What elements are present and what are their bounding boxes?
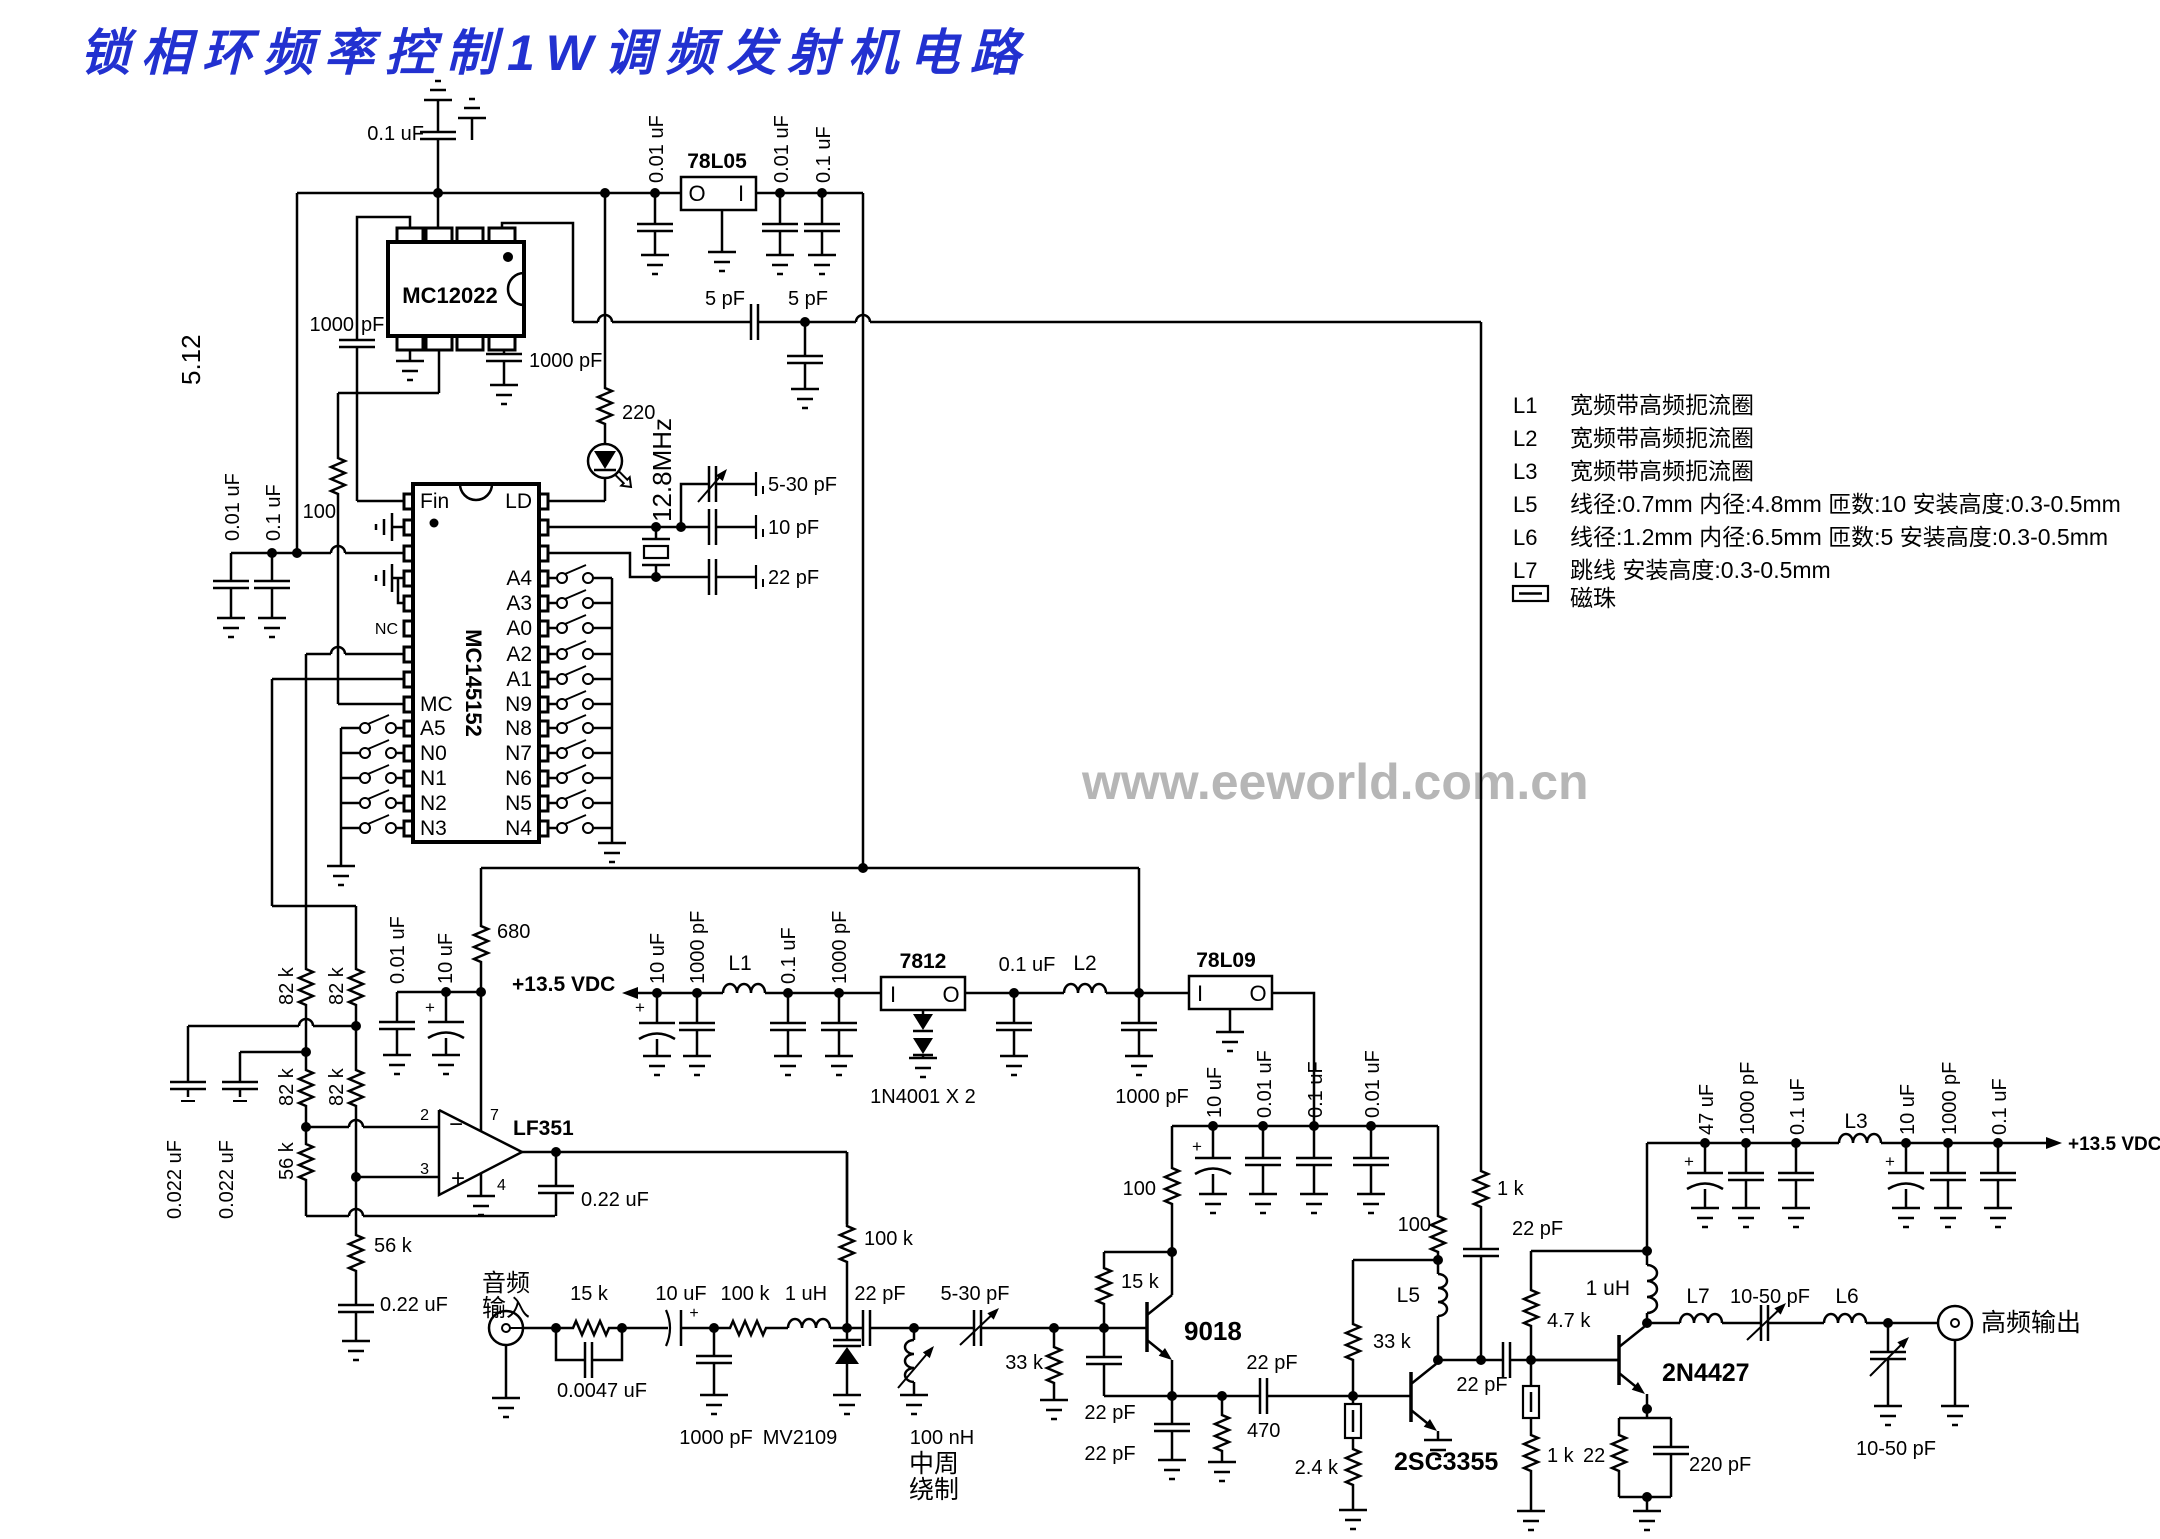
wire LED to LD pin bbox=[548, 477, 605, 501]
svg-text:0.01 uF: 0.01 uF bbox=[222, 473, 244, 541]
resistor 100 k (varactor bias) bbox=[840, 1152, 914, 1328]
svg-text:+: + bbox=[1192, 1137, 1202, 1156]
capacitor 22 pF (base-emitter) bbox=[1084, 1328, 1135, 1424]
svg-text:2SC3355: 2SC3355 bbox=[1394, 1448, 1498, 1476]
capacitor 0.1 uF (9V) bbox=[1296, 1061, 1332, 1194]
svg-text:7812: 7812 bbox=[900, 950, 947, 973]
ground bbox=[1158, 1460, 1186, 1479]
svg-text:7: 7 bbox=[490, 1107, 499, 1124]
varactor MV2109 bbox=[763, 1328, 861, 1449]
capacitor 1000 pF (PA) bbox=[1728, 1062, 1764, 1208]
capacitor 1000 pF (PA out) bbox=[1930, 1062, 1966, 1208]
resistor 15 k (9018) bbox=[1097, 1252, 1172, 1328]
resistor 100 k (audio) bbox=[714, 1283, 788, 1335]
svg-text:N4: N4 bbox=[505, 817, 532, 840]
pin label N9 bbox=[505, 693, 532, 716]
ground bbox=[1300, 1194, 1328, 1213]
svg-text:pF: pF bbox=[361, 314, 384, 336]
svg-text:音频: 音频 bbox=[482, 1270, 530, 1297]
op-amp U3 LF351 bbox=[420, 1107, 574, 1195]
ground (below 5 pF) bbox=[791, 389, 819, 408]
resistor 82 k (D) bbox=[326, 1026, 363, 1182]
svg-text:−: − bbox=[449, 1111, 463, 1138]
svg-text:1000: 1000 bbox=[310, 314, 355, 336]
ground bbox=[342, 1341, 370, 1360]
svg-text:O: O bbox=[688, 181, 705, 206]
ground bbox=[1934, 1208, 1962, 1227]
ground bbox=[1691, 1208, 1719, 1227]
resistor 100 (PLL) bbox=[303, 393, 404, 704]
svg-text:0.01 uF: 0.01 uF bbox=[646, 115, 668, 183]
svg-text:12.8MHz: 12.8MHz bbox=[647, 418, 677, 522]
switch A1 bbox=[548, 666, 612, 684]
wire row654 drop bbox=[305, 654, 308, 967]
transistor Q1 9018 bbox=[1147, 1252, 1242, 1396]
pin label Fin bbox=[420, 490, 449, 513]
svg-text:0.1 uF: 0.1 uF bbox=[999, 954, 1056, 976]
ground (2N4427 emitter) bbox=[1633, 1497, 1661, 1530]
wire left switch bus bbox=[340, 728, 343, 866]
svg-text:10 uF: 10 uF bbox=[1204, 1067, 1226, 1118]
watermark bbox=[1081, 754, 1589, 810]
svg-text:78L09: 78L09 bbox=[1196, 949, 1256, 972]
wire base bias bbox=[1531, 1246, 1652, 1256]
svg-text:5-30 pF: 5-30 pF bbox=[768, 474, 837, 496]
svg-text:5 pF: 5 pF bbox=[705, 288, 745, 310]
svg-text:0.1 uF: 0.1 uF bbox=[1787, 1078, 1809, 1135]
regulator 78L09 bbox=[1189, 949, 1272, 1009]
svg-text:线径:1.2mm 内径:6.5mm 匝数:5 安装高度:0: 线径:1.2mm 内径:6.5mm 匝数:5 安装高度:0.3-0.5mm bbox=[1570, 524, 2108, 550]
wire 78L09 out bbox=[1272, 993, 1314, 1126]
svg-text:470: 470 bbox=[1247, 1420, 1280, 1442]
resistor 470 bbox=[1215, 1396, 1280, 1462]
switch N2 bbox=[341, 790, 404, 808]
svg-text:I: I bbox=[890, 982, 896, 1007]
svg-text:L7: L7 bbox=[1513, 558, 1537, 583]
svg-text:56 k: 56 k bbox=[374, 1235, 413, 1257]
wire 9V rail bbox=[1172, 1121, 1438, 1131]
legend L1 bbox=[1513, 392, 1754, 418]
ground bbox=[808, 255, 836, 274]
svg-text:100 k: 100 k bbox=[864, 1228, 914, 1250]
resistor 100 (rail right) bbox=[1398, 1126, 1445, 1265]
ground (2SC3355 emitter) bbox=[1424, 1440, 1452, 1459]
svg-text:N0: N0 bbox=[420, 742, 447, 765]
switch N6 bbox=[548, 765, 612, 783]
svg-text:680: 680 bbox=[497, 921, 530, 943]
capacitor 10 uF (op-amp supply) bbox=[425, 933, 464, 1055]
svg-text:1000 pF: 1000 pF bbox=[679, 1427, 752, 1449]
ground bbox=[1208, 1462, 1236, 1481]
pin label N6 bbox=[505, 767, 532, 790]
ground bbox=[1892, 1208, 1920, 1227]
wire OSC1 row 527 bbox=[548, 522, 686, 532]
ground bbox=[1874, 1406, 1902, 1425]
crystal 12.8MHz bbox=[642, 418, 677, 582]
legend L7 bbox=[1513, 557, 1831, 583]
ferrite bead (2N4427 base) bbox=[1523, 1360, 1539, 1418]
ground (sideways, rows 578/603) bbox=[376, 564, 404, 603]
svg-text:0.22 uF: 0.22 uF bbox=[581, 1189, 649, 1211]
capacitor 0.01 uF (left of 78L05) bbox=[637, 115, 673, 255]
capacitor 0.22 uF (lower) bbox=[338, 1294, 448, 1341]
svg-text:Fin: Fin bbox=[420, 490, 449, 513]
figure number 5.12 bbox=[176, 334, 206, 385]
switch A3 bbox=[548, 590, 612, 608]
pin label N7 bbox=[505, 742, 532, 765]
label +13.5 VDC (right) bbox=[2046, 1134, 2160, 1155]
IC U1 MC145152 bbox=[404, 484, 548, 842]
svg-text:1000 pF: 1000 pF bbox=[529, 350, 602, 372]
svg-text:33 k: 33 k bbox=[1005, 1352, 1044, 1374]
wire bbox=[1881, 1138, 2046, 1148]
svg-text:L2: L2 bbox=[1073, 952, 1096, 975]
svg-text:47 uF: 47 uF bbox=[1696, 1084, 1718, 1135]
svg-text:+: + bbox=[689, 1305, 698, 1322]
ground (RF connector) bbox=[1941, 1340, 1969, 1425]
legend L5 bbox=[1513, 491, 2121, 517]
pin label N5 bbox=[505, 792, 532, 815]
ferrite bead (2SC3355 base) bbox=[1345, 1396, 1361, 1438]
ground (below 1000 pF) bbox=[490, 385, 518, 404]
pin label A3 bbox=[506, 592, 532, 615]
svg-text:磁珠: 磁珠 bbox=[1570, 585, 1616, 611]
svg-text:I: I bbox=[738, 181, 744, 206]
svg-text:+: + bbox=[425, 998, 435, 1017]
ground bbox=[217, 618, 245, 637]
svg-text:宽频带高频扼流圈: 宽频带高频扼流圈 bbox=[1570, 425, 1754, 451]
svg-text:100: 100 bbox=[1398, 1214, 1431, 1236]
inductor 1 uH (audio) bbox=[785, 1283, 863, 1333]
svg-text:1 k: 1 k bbox=[1547, 1445, 1575, 1467]
capacitor 5 pF (series) bbox=[705, 288, 758, 340]
svg-text:2.4 k: 2.4 k bbox=[1295, 1457, 1339, 1479]
svg-text:2: 2 bbox=[420, 1107, 429, 1124]
wire node A bbox=[338, 347, 439, 501]
inductor L6 bbox=[1824, 1285, 1938, 1328]
svg-text:L6: L6 bbox=[1513, 525, 1537, 550]
ground (top of 0.1 uF) bbox=[424, 81, 452, 132]
svg-text:A0: A0 bbox=[506, 617, 532, 640]
resistor 82 k (B) bbox=[326, 906, 363, 1026]
svg-text:0.22 uF: 0.22 uF bbox=[380, 1294, 448, 1316]
capacitor 0.1 uF (PA) bbox=[1778, 1078, 1814, 1208]
svg-text:L5: L5 bbox=[1397, 1284, 1420, 1307]
switch N0 bbox=[341, 740, 404, 758]
svg-text:15 k: 15 k bbox=[1121, 1271, 1160, 1293]
pin label NC bbox=[375, 621, 398, 638]
svg-text:MC12022: MC12022 bbox=[402, 283, 497, 308]
switch N4 bbox=[548, 815, 612, 833]
svg-text:0.1 uF: 0.1 uF bbox=[778, 927, 800, 984]
capacitor 22 pF (interstage) bbox=[1222, 1352, 1358, 1414]
wire 33k top bbox=[1353, 1259, 1438, 1262]
ground bbox=[683, 1056, 711, 1075]
wire pin7 supply bbox=[480, 992, 483, 1131]
svg-text:宽频带高频扼流圈: 宽频带高频扼流圈 bbox=[1570, 458, 1754, 484]
capacitor 0.01 uF (Vdd) bbox=[213, 473, 249, 618]
pin label LD bbox=[505, 490, 532, 513]
svg-text:10 uF: 10 uF bbox=[1897, 1084, 1919, 1135]
ground (MC12022 pin 1 bottom) bbox=[396, 350, 424, 380]
svg-text:5.12: 5.12 bbox=[176, 334, 206, 385]
svg-text:220 pF: 220 pF bbox=[1689, 1454, 1751, 1476]
svg-text:33 k: 33 k bbox=[1373, 1331, 1412, 1353]
pin label N3 bbox=[420, 817, 447, 840]
svg-text:跳线 安装高度:0.3-0.5mm: 跳线 安装高度:0.3-0.5mm bbox=[1570, 557, 1831, 583]
pin label MC bbox=[420, 693, 453, 716]
svg-text:5-30 pF: 5-30 pF bbox=[941, 1283, 1010, 1305]
title text bbox=[80, 25, 1031, 81]
wire bbox=[611, 1323, 668, 1333]
ground (sideways, pin row 527) bbox=[376, 513, 404, 541]
svg-text:A5: A5 bbox=[420, 717, 446, 740]
svg-text:10-50 pF: 10-50 pF bbox=[1730, 1286, 1810, 1308]
svg-text:1N4001 X 2: 1N4001 X 2 bbox=[870, 1086, 976, 1108]
svg-text:10 uF: 10 uF bbox=[655, 1283, 706, 1305]
connector RF output bbox=[1938, 1306, 2081, 1340]
capacitor 5 pF (shunt) bbox=[787, 288, 828, 389]
svg-text:4: 4 bbox=[497, 1177, 506, 1194]
wire bbox=[765, 988, 881, 998]
svg-text:22 pF: 22 pF bbox=[854, 1283, 905, 1305]
resistor 33 k (9018 base) bbox=[1005, 1328, 1061, 1400]
wire 13.5V feed bbox=[622, 987, 723, 999]
svg-text:4.7 k: 4.7 k bbox=[1547, 1310, 1591, 1332]
svg-text:0.01 uF: 0.01 uF bbox=[1362, 1050, 1384, 1118]
ground bbox=[383, 1055, 411, 1074]
resistor 1 k (feedback) bbox=[1474, 322, 1525, 1249]
inductor L5 bbox=[1397, 1260, 1447, 1365]
svg-text:0.1 uF: 0.1 uF bbox=[367, 123, 424, 145]
ground bbox=[1125, 1056, 1153, 1075]
capacitor 47 uF bbox=[1684, 1084, 1723, 1208]
ground bbox=[258, 618, 286, 637]
wire row 654 bbox=[306, 647, 404, 654]
svg-text:1000 pF: 1000 pF bbox=[1939, 1062, 1961, 1135]
ground bbox=[432, 1055, 460, 1074]
ground bbox=[643, 1056, 671, 1075]
LED lock indicator bbox=[588, 444, 631, 487]
svg-text:0.01 uF: 0.01 uF bbox=[387, 916, 409, 984]
capacitor 5-30 pF (trimmer) bbox=[681, 466, 837, 527]
svg-text:0.01 uF: 0.01 uF bbox=[771, 115, 793, 183]
ground bbox=[1199, 1194, 1227, 1213]
wire Vcc bus bbox=[297, 188, 863, 198]
svg-text:1 uH: 1 uH bbox=[1586, 1277, 1630, 1300]
ground bbox=[641, 255, 669, 274]
svg-text:www.eeworld.com.cn: www.eeworld.com.cn bbox=[1081, 754, 1589, 810]
svg-text:1000 pF: 1000 pF bbox=[1115, 1086, 1188, 1108]
pin label N0 bbox=[420, 742, 447, 765]
resistor 100 (rail left) bbox=[1123, 1126, 1179, 1257]
svg-text:LF351: LF351 bbox=[513, 1117, 574, 1140]
svg-text:+: + bbox=[451, 1165, 465, 1192]
switch N3 bbox=[341, 815, 404, 833]
capacitor 0.01 uF (9V) bbox=[1245, 1050, 1281, 1194]
svg-text:L2: L2 bbox=[1513, 426, 1537, 451]
inductor 1 uH (collector) bbox=[1586, 1251, 1657, 1328]
pin label A0 bbox=[506, 617, 532, 640]
svg-text:0.1 uF: 0.1 uF bbox=[263, 484, 285, 541]
capacitor 0.1 uF (top) bbox=[367, 123, 456, 193]
svg-text:22 pF: 22 pF bbox=[1084, 1402, 1135, 1424]
resistor 56 k (A) bbox=[276, 1127, 313, 1216]
capacitor 0.1 uF (right) bbox=[804, 126, 840, 255]
svg-text:22: 22 bbox=[1583, 1445, 1605, 1467]
svg-text:+: + bbox=[635, 998, 645, 1017]
svg-text:线径:0.7mm 内径:4.8mm 匝数:10 安装高度:0: 线径:0.7mm 内径:4.8mm 匝数:10 安装高度:0.3-0.5mm bbox=[1570, 491, 2121, 517]
svg-text:N3: N3 bbox=[420, 817, 447, 840]
svg-text:+: + bbox=[1684, 1152, 1694, 1171]
svg-text:N2: N2 bbox=[420, 792, 447, 815]
ground (audio connector) bbox=[492, 1345, 520, 1417]
legend L2 bbox=[1513, 425, 1754, 451]
svg-text:3: 3 bbox=[420, 1161, 429, 1178]
svg-text:0.0047 uF: 0.0047 uF bbox=[557, 1380, 647, 1402]
capacitor 10 pF bbox=[681, 509, 819, 545]
resistor 22 (emitter) bbox=[1583, 1409, 1671, 1497]
wire noninverting input bbox=[356, 1176, 439, 1179]
capacitor 0.1 uF (Vdd) bbox=[254, 484, 290, 618]
svg-text:中周: 中周 bbox=[909, 1450, 959, 1478]
capacitor 0.0047 uF bbox=[556, 1328, 647, 1402]
transistor Q2 2SC3355 bbox=[1353, 1362, 1498, 1476]
ground bbox=[1782, 1208, 1810, 1227]
svg-text:22 pF: 22 pF bbox=[1512, 1218, 1563, 1240]
capacitor 0.22 uF (output) bbox=[538, 1152, 649, 1216]
svg-text:N6: N6 bbox=[505, 767, 532, 790]
capacitor 10-50 pF (series) bbox=[1730, 1286, 1824, 1341]
pin label N8 bbox=[505, 717, 532, 740]
switch N7 bbox=[548, 740, 612, 758]
svg-text:100: 100 bbox=[303, 501, 336, 523]
inductor L7 bbox=[1647, 1285, 1761, 1323]
wire MC12022 pin4 to VCO line bbox=[502, 223, 573, 322]
pin label A1 bbox=[506, 668, 532, 691]
inductor L2 bbox=[1064, 952, 1106, 993]
svg-text:+13.5 VDC: +13.5 VDC bbox=[512, 973, 615, 996]
svg-text:输入: 输入 bbox=[482, 1295, 530, 1322]
svg-text:A1: A1 bbox=[506, 668, 532, 691]
svg-text:高频输出: 高频输出 bbox=[1981, 1309, 2081, 1337]
capacitor 0.1 uF (after 7812) bbox=[996, 954, 1055, 1056]
capacitor 1000 pF (below MC12022) bbox=[486, 350, 602, 385]
svg-text:N7: N7 bbox=[505, 742, 532, 765]
capacitor 10 uF (9V) bbox=[1192, 1067, 1231, 1194]
capacitor 22 pF (osc coupling) bbox=[854, 1283, 919, 1346]
svg-text:O: O bbox=[1249, 981, 1266, 1006]
wire bbox=[1106, 988, 1189, 998]
svg-text:22 pF: 22 pF bbox=[768, 567, 819, 589]
svg-text:NC: NC bbox=[375, 621, 398, 638]
capacitor 22 pF (crystal) bbox=[656, 559, 819, 595]
resistor 220 bbox=[598, 193, 655, 443]
svg-text:L3: L3 bbox=[1513, 459, 1537, 484]
ground bbox=[1040, 1400, 1068, 1419]
capacitor 22 pF (emitter) bbox=[1084, 1396, 1190, 1465]
wire bbox=[965, 988, 1064, 998]
svg-text:0.01 uF: 0.01 uF bbox=[1254, 1050, 1276, 1118]
inductor L3 bbox=[1839, 1110, 1881, 1143]
legend L3 bbox=[1513, 458, 1754, 484]
svg-text:A4: A4 bbox=[506, 567, 532, 590]
svg-text:1 k: 1 k bbox=[1497, 1178, 1525, 1200]
svg-text:78L05: 78L05 bbox=[687, 150, 747, 173]
svg-text:82 k: 82 k bbox=[326, 1067, 348, 1106]
capacitor 220 pF (emitter) bbox=[1619, 1418, 1751, 1502]
ground bbox=[1984, 1208, 2012, 1227]
IC U2 MC12022 bbox=[388, 228, 524, 350]
switch A2 bbox=[548, 641, 612, 659]
svg-text:56 k: 56 k bbox=[276, 1141, 298, 1180]
svg-text:MC145152: MC145152 bbox=[461, 629, 486, 737]
svg-text:9018: 9018 bbox=[1184, 1316, 1242, 1346]
svg-text:15 k: 15 k bbox=[570, 1283, 609, 1305]
svg-text:N5: N5 bbox=[505, 792, 532, 815]
capacitor 0.01 uF (9V b) bbox=[1353, 1050, 1389, 1194]
svg-text:I: I bbox=[1197, 981, 1203, 1006]
pin label A2 bbox=[506, 643, 532, 666]
svg-text:100: 100 bbox=[1123, 1178, 1156, 1200]
ground bbox=[766, 255, 794, 274]
svg-text:10 uF: 10 uF bbox=[647, 933, 669, 984]
wire op-amp output bbox=[522, 1147, 847, 1157]
wire left bus vertical bbox=[296, 193, 299, 553]
svg-text:L7: L7 bbox=[1686, 1285, 1709, 1308]
svg-text:绕制: 绕制 bbox=[909, 1476, 959, 1504]
svg-text:0.1 uF: 0.1 uF bbox=[1989, 1078, 2011, 1135]
svg-text:MC: MC bbox=[420, 693, 453, 716]
switch A4 bbox=[548, 565, 612, 583]
wire feedback bottom bbox=[306, 1209, 555, 1216]
ground bbox=[1000, 1056, 1028, 1075]
svg-text:0.1 uF: 0.1 uF bbox=[813, 126, 835, 183]
svg-text:宽频带高频扼流圈: 宽频带高频扼流圈 bbox=[1570, 392, 1754, 418]
wire right switch bus bbox=[611, 578, 614, 843]
svg-text:MV2109: MV2109 bbox=[763, 1427, 838, 1449]
wire collector node bbox=[1438, 1355, 1486, 1365]
svg-text:100 nH: 100 nH bbox=[910, 1427, 975, 1449]
wire supply node bbox=[397, 987, 481, 997]
wire 9018 emitter line bbox=[1104, 1391, 1227, 1401]
wire LF351 output to 100 k bbox=[846, 1152, 849, 1224]
wire +13.5 rail bbox=[1647, 1138, 1839, 1148]
svg-text:1000 pF: 1000 pF bbox=[1737, 1062, 1759, 1135]
svg-text:22 pF: 22 pF bbox=[1246, 1352, 1297, 1374]
resistor 33 k (2SC3355) bbox=[1346, 1260, 1412, 1396]
wire tap line upper bbox=[188, 1019, 361, 1031]
switch N9 bbox=[548, 691, 612, 709]
resistor 4.7 k bbox=[1524, 1251, 1591, 1360]
capacitor 0.01 uF (right of 78L05) bbox=[762, 115, 798, 255]
pin label N4 bbox=[505, 817, 532, 840]
pin label N1 bbox=[420, 767, 447, 790]
svg-text:A3: A3 bbox=[506, 592, 532, 615]
pin label A5 bbox=[420, 717, 446, 740]
svg-text:0.1 uF: 0.1 uF bbox=[1305, 1061, 1327, 1118]
svg-text:2N4427: 2N4427 bbox=[1662, 1359, 1750, 1387]
pin label N2 bbox=[420, 792, 447, 815]
wire right bus drop bbox=[862, 193, 865, 868]
svg-text:L3: L3 bbox=[1844, 1110, 1867, 1133]
capacitor 5-30 pF (osc trimmer) bbox=[914, 1283, 1054, 1346]
resistor 15 k (audio) bbox=[570, 1283, 611, 1335]
wire VCO line bbox=[573, 315, 1481, 327]
ground bbox=[774, 1056, 802, 1075]
svg-text:5 pF: 5 pF bbox=[788, 288, 828, 310]
connector audio input bbox=[482, 1270, 530, 1345]
